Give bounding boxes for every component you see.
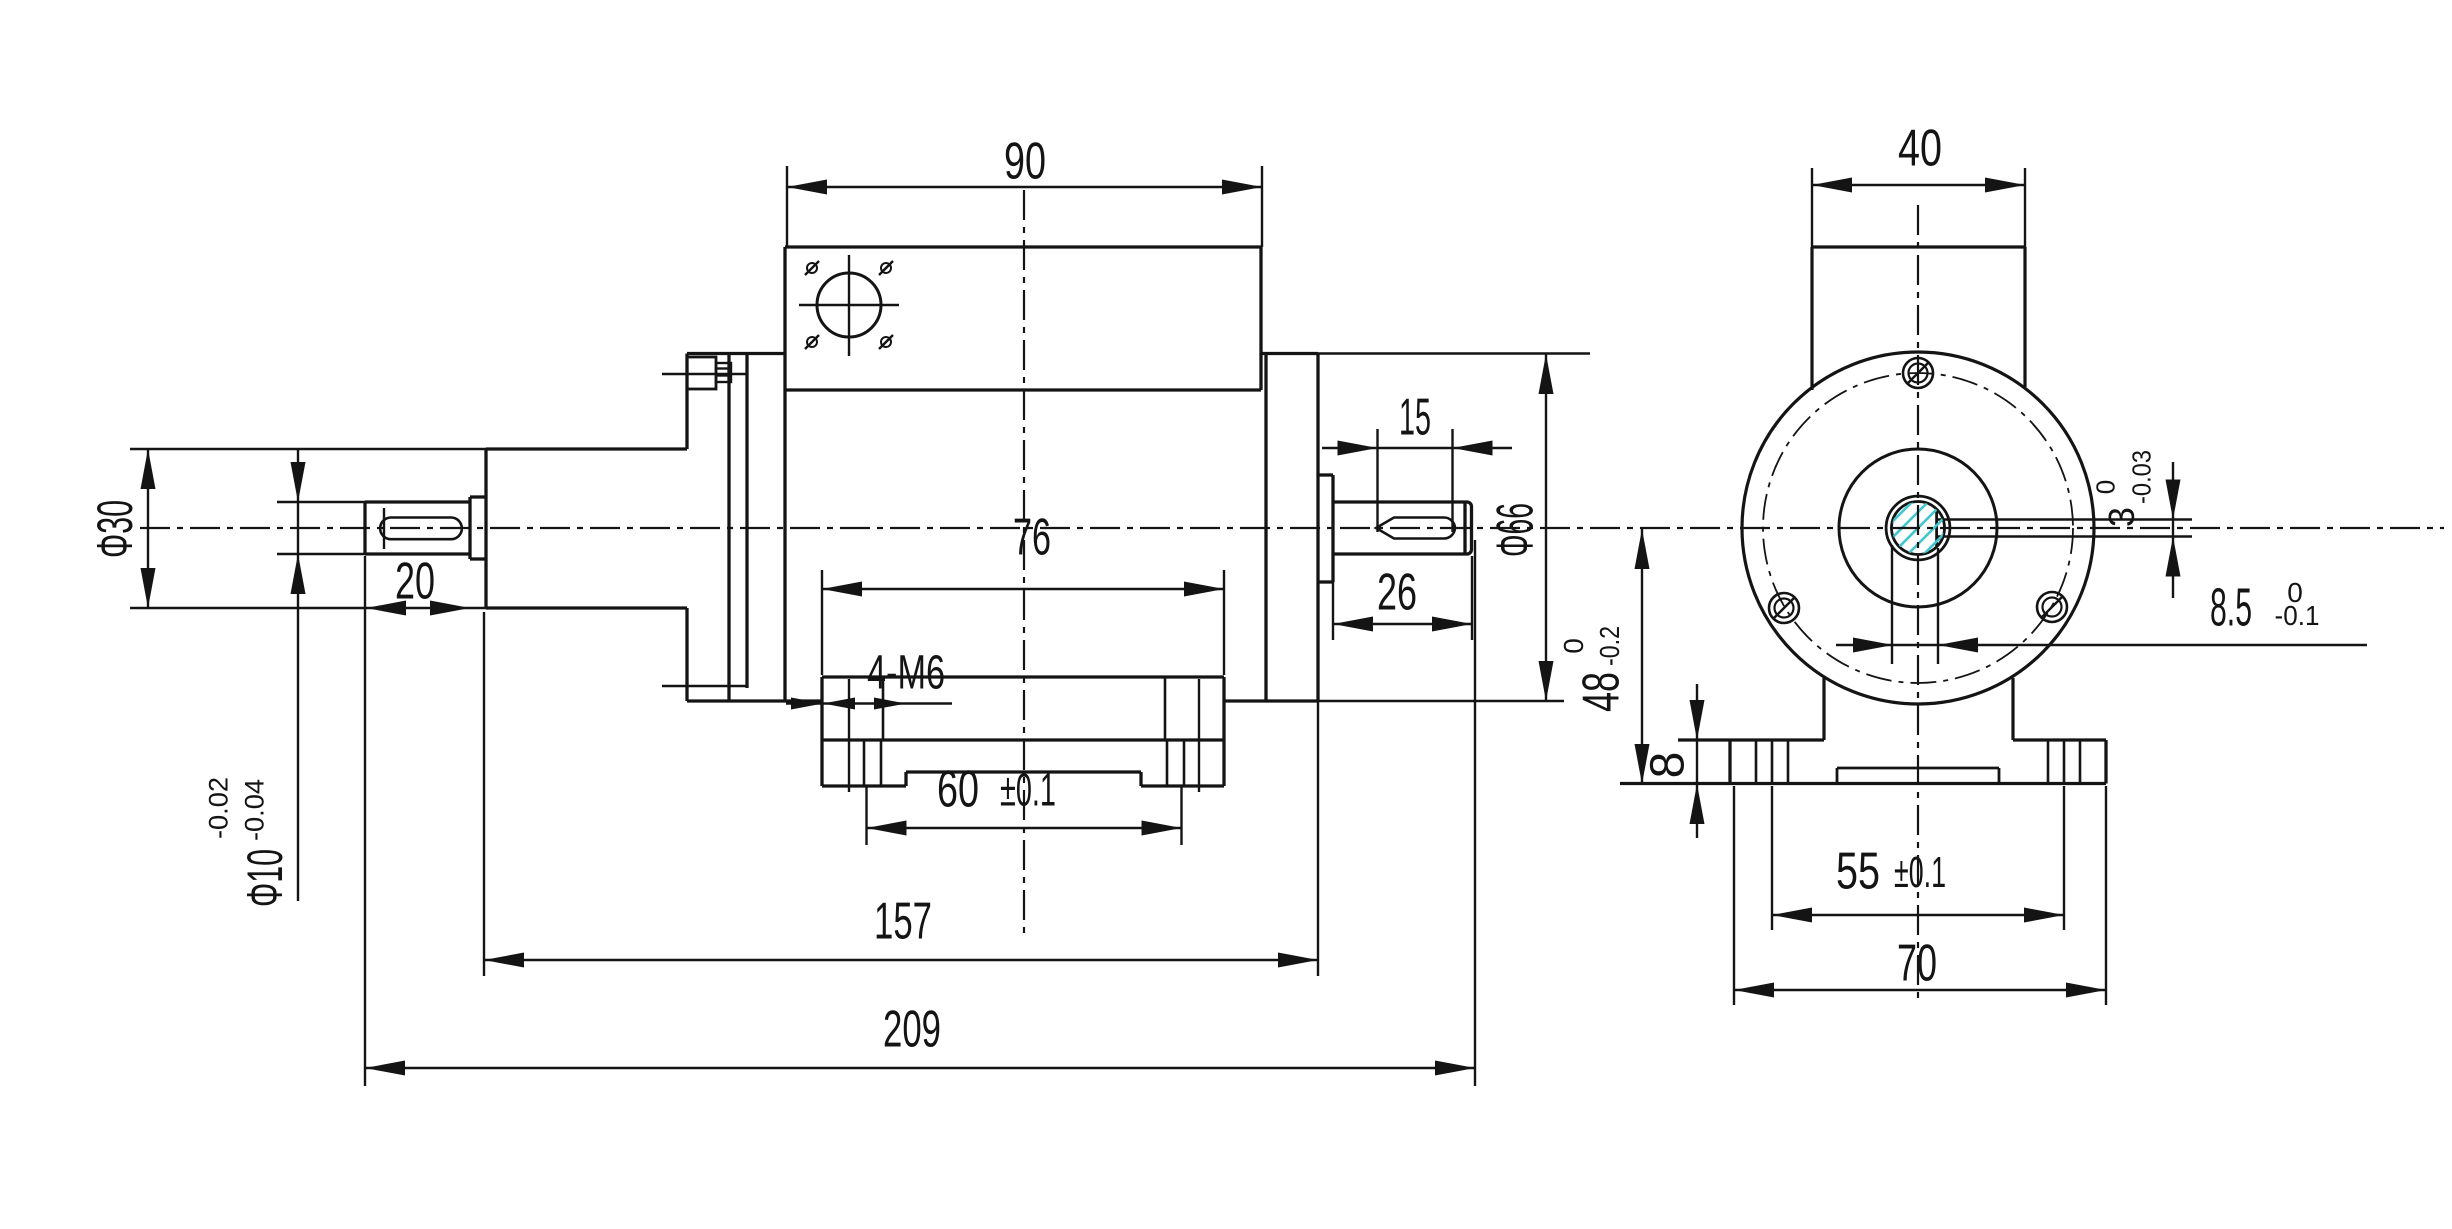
svg-text:-0.04: -0.04 <box>240 779 270 841</box>
svg-text:8.5: 8.5 <box>2210 577 2252 637</box>
svg-text:0: 0 <box>2090 480 2120 494</box>
svg-text:4-M6: 4-M6 <box>867 646 945 699</box>
svg-text:70: 70 <box>1897 935 1937 993</box>
svg-text:Φ10: Φ10 <box>237 849 293 907</box>
svg-text:8: 8 <box>1641 752 1694 779</box>
svg-text:3: 3 <box>2101 507 2142 527</box>
svg-text:15: 15 <box>1399 389 1431 447</box>
svg-text:55: 55 <box>1836 843 1880 901</box>
svg-text:±0.1: ±0.1 <box>1000 764 1056 816</box>
svg-text:40: 40 <box>1898 120 1942 178</box>
svg-text:-0.03: -0.03 <box>2126 450 2156 504</box>
svg-text:209: 209 <box>883 1001 941 1059</box>
svg-text:-0.2: -0.2 <box>1594 626 1625 666</box>
svg-text:76: 76 <box>1013 509 1051 567</box>
svg-text:Φ66: Φ66 <box>1487 503 1545 557</box>
svg-text:90: 90 <box>1004 133 1046 191</box>
svg-text:26: 26 <box>1377 564 1417 622</box>
svg-text:Φ30: Φ30 <box>87 500 143 558</box>
svg-text:48: 48 <box>1573 672 1631 712</box>
svg-text:-0.02: -0.02 <box>204 777 234 839</box>
svg-text:157: 157 <box>874 893 932 951</box>
svg-text:0: 0 <box>1558 638 1589 654</box>
svg-text:±0.1: ±0.1 <box>1894 848 1946 897</box>
svg-text:-0.1: -0.1 <box>2275 600 2320 631</box>
svg-text:60: 60 <box>937 761 979 819</box>
svg-text:20: 20 <box>395 553 435 611</box>
